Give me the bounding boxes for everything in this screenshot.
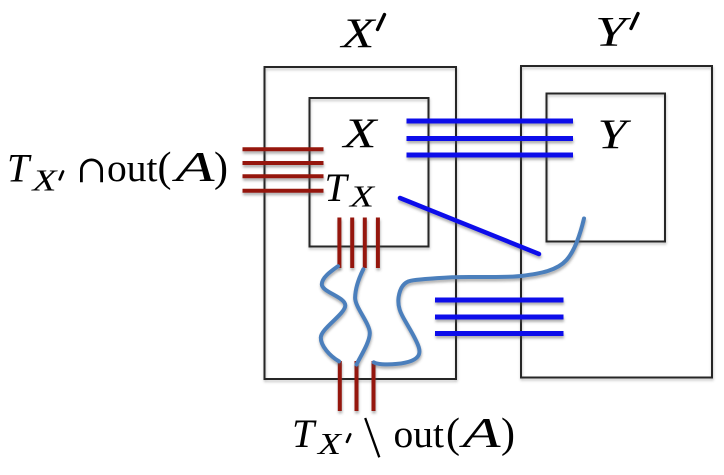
blue horizontal lines (middle right, 3) — [435, 300, 564, 334]
blue diagonal line — [400, 198, 539, 254]
svg-text:X: X — [339, 12, 378, 58]
red edge line 1 (T_X' ∩ out(A)) — [243, 147, 324, 151]
svg-text:): ) — [214, 145, 228, 191]
svg-text:Y: Y — [598, 113, 633, 159]
rectangle X' outer — [265, 67, 457, 379]
svg-text:Y: Y — [595, 10, 632, 56]
svg-text:out: out — [107, 146, 158, 190]
svg-text:X: X — [316, 426, 343, 461]
svg-text:A: A — [458, 411, 501, 457]
blue edge line 2 (X to Y) — [407, 136, 574, 141]
blue edge line 3 (X to Y) — [407, 153, 574, 158]
red edge line 2 (T_X' ∩ out(A)) — [243, 161, 324, 165]
svg-text:): ) — [501, 411, 515, 457]
svg-text:X: X — [347, 179, 375, 214]
svg-text:X: X — [341, 112, 380, 158]
rectangle X inner — [310, 98, 429, 247]
red T_X' \ out(A) edge 2 — [355, 361, 359, 411]
svg-text:(: ( — [158, 145, 172, 191]
label T_X' ∩ out(A) (left) — [7, 145, 228, 198]
blue edge line 1 (X to Y) — [407, 119, 574, 124]
svg-text:(: ( — [446, 411, 460, 457]
red vertical lines (below X, 4) — [339, 218, 378, 269]
svg-text:T: T — [292, 411, 317, 456]
blue edge line 5 (X' to Y') — [435, 315, 564, 320]
red T_X tree edge 3 — [363, 218, 367, 269]
blue horizontal lines (top, 3) — [407, 121, 574, 155]
red T_X tree edge 2 — [350, 218, 354, 269]
light blue curve B (right squiggle) — [355, 269, 370, 364]
svg-text:out: out — [394, 412, 445, 456]
red edge line 4 (T_X' ∩ out(A)) — [243, 189, 324, 193]
label T_X — [325, 165, 376, 214]
label T_X' \ out(A) (bottom) — [292, 411, 515, 461]
light blue curve C (long sweep to Y) — [374, 219, 584, 365]
rectangle Y inner — [547, 94, 666, 242]
rectangle Y' outer — [521, 66, 712, 378]
blue edge line 6 (X' to Y') — [435, 331, 564, 336]
svg-text:A: A — [171, 145, 215, 191]
svg-text:X: X — [30, 163, 58, 198]
red T_X tree edge 4 — [376, 218, 380, 269]
svg-text:T: T — [7, 146, 32, 191]
red T_X tree edge 1 — [337, 218, 341, 269]
blue edge line 4 (X' to Y') — [435, 298, 564, 303]
red vertical lines (bottom, 3) — [340, 361, 374, 411]
red edge line 3 (T_X' ∩ out(A)) — [243, 174, 324, 178]
red T_X' \ out(A) edge 3 — [372, 361, 376, 411]
red T_X' \ out(A) edge 1 — [338, 361, 342, 411]
red horizontal lines (left, 4) — [243, 149, 324, 191]
label X' (above left box) — [339, 12, 385, 58]
light blue curve A (left squiggle) — [321, 266, 346, 361]
svg-text:T: T — [325, 165, 350, 210]
label Y' (above right box) — [595, 10, 638, 56]
